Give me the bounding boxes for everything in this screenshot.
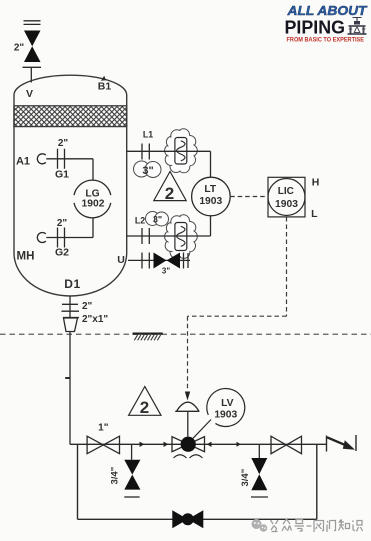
svg-text:3/4": 3/4" — [240, 469, 251, 487]
svg-text:2": 2" — [14, 43, 25, 54]
svg-text:V: V — [26, 88, 33, 100]
svg-text:1902: 1902 — [82, 199, 105, 210]
svg-text:A1: A1 — [16, 156, 30, 168]
svg-text:1903: 1903 — [199, 196, 222, 207]
svg-text:LT: LT — [204, 184, 217, 195]
svg-text:1903: 1903 — [214, 409, 237, 420]
svg-text:3": 3" — [153, 215, 162, 225]
svg-text:B1: B1 — [98, 81, 112, 93]
svg-text:2: 2 — [165, 184, 174, 203]
svg-text:U: U — [117, 254, 125, 266]
svg-text:FROM BASIC TO EXPERTISE: FROM BASIC TO EXPERTISE — [287, 37, 365, 44]
svg-text:1903: 1903 — [275, 199, 298, 210]
svg-text:G2: G2 — [55, 247, 69, 259]
svg-text:LIC: LIC — [278, 186, 294, 197]
svg-text:2": 2" — [57, 218, 68, 229]
svg-text:3": 3" — [162, 267, 170, 276]
svg-text:L1: L1 — [143, 130, 153, 140]
svg-text:LV: LV — [221, 398, 234, 409]
svg-text:H: H — [312, 177, 320, 189]
svg-text:2": 2" — [82, 301, 93, 312]
svg-text:2: 2 — [140, 398, 149, 417]
svg-text:3/4": 3/4" — [110, 467, 121, 485]
svg-text:G1: G1 — [55, 169, 69, 181]
svg-text:D1: D1 — [64, 277, 81, 291]
svg-text:L: L — [311, 208, 318, 220]
svg-text:3": 3" — [142, 165, 153, 177]
svg-text:2": 2" — [58, 138, 69, 149]
svg-text:PIPING: PIPING — [285, 17, 346, 38]
svg-text:MH: MH — [17, 251, 35, 263]
svg-text:1": 1" — [98, 423, 109, 434]
svg-text:L2: L2 — [135, 216, 145, 226]
svg-text:2"x1": 2"x1" — [82, 314, 108, 325]
